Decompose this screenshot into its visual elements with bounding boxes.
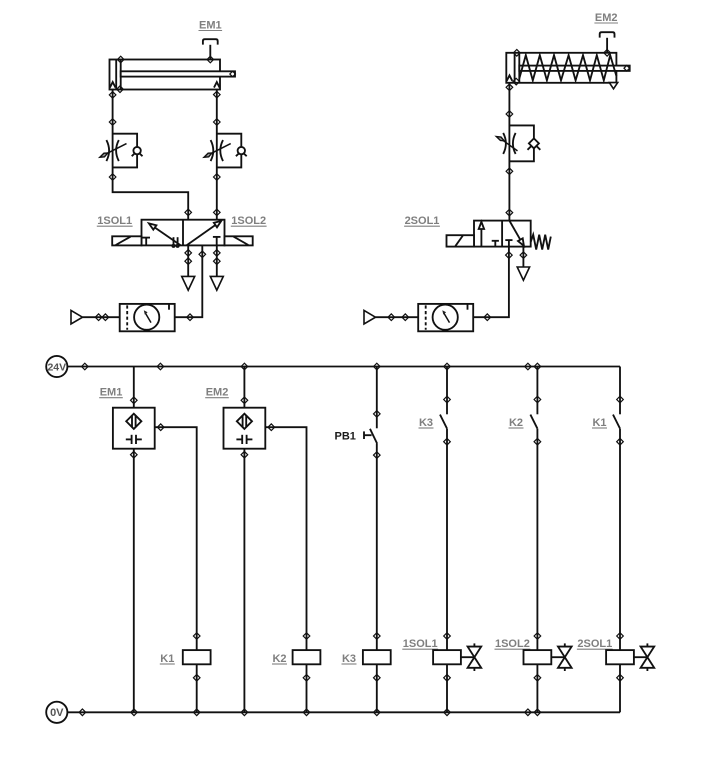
wire valve 2 exhaust bbox=[522, 247, 524, 267]
contact K1 (normally open) bbox=[613, 415, 620, 429]
port arrow right bbox=[214, 82, 220, 88]
wire source 1 to air unit bbox=[83, 316, 120, 318]
node bottom rail 1SOL1 junction bbox=[444, 709, 451, 716]
solenoid valve symbol 2SOL1 bbox=[641, 643, 655, 671]
node bottom rail 1SOL2 junction bbox=[534, 709, 541, 716]
wire 1SOL1 coil to valve symbol bbox=[461, 656, 475, 658]
svg-text:EM2: EM2 bbox=[595, 12, 618, 24]
node rod end EM1 bbox=[230, 71, 236, 77]
wire EM2 sensor to 0V bbox=[243, 449, 245, 713]
svg-text:2SOL1: 2SOL1 bbox=[577, 638, 612, 650]
node bottom rail K2 junction bbox=[303, 709, 310, 716]
svg-text:1SOL2: 1SOL2 bbox=[231, 215, 266, 227]
node PB1 bottom bbox=[374, 452, 381, 459]
node top rail EM2 junction bbox=[241, 363, 248, 370]
node K1 coil top bbox=[193, 633, 200, 640]
node K3 contact bottom bbox=[444, 438, 451, 445]
node source wire 1b bbox=[102, 314, 109, 321]
compressed air source 1 bbox=[71, 310, 83, 324]
wire K1 coil to 0V bbox=[196, 664, 198, 712]
wire K2 coil to 0V bbox=[306, 664, 308, 712]
wire valve 2 pressure port 1 bbox=[473, 247, 509, 318]
node bottom rail K1 junction bbox=[193, 709, 200, 716]
exhaust valve 2 port 3 bbox=[517, 267, 529, 280]
compressed air source 2 bbox=[364, 310, 376, 324]
node top rail PB1 junction bbox=[374, 363, 381, 370]
svg-text:K1: K1 bbox=[592, 417, 606, 429]
svg-text:K3: K3 bbox=[342, 653, 356, 665]
valve 1 left position internals bbox=[142, 223, 180, 247]
node below flow control 2 bbox=[214, 174, 221, 181]
node below right port bbox=[214, 91, 221, 98]
svg-text:0V: 0V bbox=[50, 707, 64, 719]
relay coil 2SOL1 bbox=[606, 650, 634, 664]
wire rail to K1 contact bbox=[619, 367, 621, 415]
svg-text:1SOL1: 1SOL1 bbox=[403, 638, 438, 650]
relay coil K2 bbox=[293, 650, 321, 664]
return spring valve 2 bbox=[531, 235, 551, 250]
node EM1 sensor bottom bbox=[131, 451, 138, 458]
node cylinder EM2 top bbox=[514, 50, 521, 57]
node sensor EM2 on cylinder bbox=[604, 50, 611, 57]
svg-text:K1: K1 bbox=[160, 653, 174, 665]
node 1SOL1 coil bottom bbox=[444, 675, 451, 682]
air service unit 2 bbox=[418, 304, 473, 331]
node EM1 sensor right bbox=[157, 424, 164, 431]
node exhaust 3 a bbox=[214, 250, 221, 257]
wire valve 1 exhaust 3 bbox=[216, 245, 218, 276]
wire 1SOL2 coil to valve symbol bbox=[551, 656, 565, 658]
flow control valve V3 bbox=[496, 125, 540, 161]
svg-text:K3: K3 bbox=[419, 417, 433, 429]
node K3 coil top bbox=[374, 633, 381, 640]
node above flow control 1 bbox=[109, 119, 116, 126]
sensor bracket EM1 bbox=[203, 39, 218, 44]
wire bottom rail 0V bbox=[67, 711, 620, 713]
node bottom rail a bbox=[79, 709, 86, 716]
wire rail to K3 contact bbox=[446, 367, 448, 415]
solenoid 1SOL2 box bbox=[225, 236, 253, 245]
node 1SOL2 coil bottom bbox=[534, 675, 541, 682]
wire EM2 sensor out to K2 coil bbox=[265, 427, 306, 650]
solenoid 2SOL1 box bbox=[447, 235, 475, 246]
proximity sensor EM1 bbox=[113, 408, 155, 449]
node pressure below valve 1 bbox=[199, 251, 206, 258]
node air unit 2 outlet bbox=[484, 314, 491, 321]
3/2-way valve body bbox=[474, 221, 531, 247]
proximity sensor EM2 bbox=[224, 408, 266, 449]
node 2SOL1 coil bottom bbox=[617, 675, 624, 682]
wire cylinder EM2 port to valve 2 bbox=[508, 83, 510, 221]
node PB1 top bbox=[374, 411, 381, 418]
node EM2 sensor right bbox=[268, 424, 275, 431]
node EM2 sensor bottom bbox=[241, 451, 248, 458]
node K2 coil bottom bbox=[303, 675, 310, 682]
node K1 contact bottom bbox=[617, 438, 624, 445]
node K2 contact bottom bbox=[534, 438, 541, 445]
breather triangle EM2 bbox=[609, 83, 617, 89]
port arrow left bbox=[110, 82, 116, 88]
wire 2SOL1 coil to 0V bbox=[619, 664, 621, 712]
solenoid valve symbol 1SOL1 bbox=[468, 643, 482, 671]
node exhaust 5 a bbox=[185, 250, 192, 257]
svg-text:24V: 24V bbox=[47, 361, 66, 373]
node valve 2 port 2 bbox=[506, 209, 513, 216]
air service unit 1 bbox=[120, 304, 175, 331]
node below EM2 port bbox=[506, 84, 513, 91]
node bottom rail K3 junction bbox=[374, 709, 381, 716]
node top rail b bbox=[157, 363, 164, 370]
node EM2 sensor top bbox=[241, 397, 248, 404]
svg-text:EM2: EM2 bbox=[206, 387, 229, 399]
spring inside cylinder EM2 bbox=[519, 55, 616, 80]
node exhaust valve 2 bbox=[520, 252, 527, 259]
solenoid valve symbol 1SOL2 bbox=[558, 643, 572, 671]
sensor bracket EM2 bbox=[600, 32, 615, 37]
node exhaust 5 b bbox=[185, 258, 192, 265]
valve 2 right position internals bbox=[505, 221, 524, 247]
node air unit 1 outlet bbox=[187, 314, 194, 321]
wire 1SOL2 coil to 0V bbox=[536, 664, 538, 712]
contact K2 (normally open) bbox=[530, 415, 537, 429]
node K1 contact top bbox=[617, 396, 624, 403]
node K2 coil top bbox=[303, 633, 310, 640]
svg-text:K2: K2 bbox=[272, 653, 286, 665]
5/2-way valve body bbox=[142, 220, 225, 246]
node cylinder EM2 bottom edge bbox=[513, 78, 520, 85]
wire source 2 to air unit bbox=[376, 316, 419, 318]
wire cylinder left port to valve port 4 bbox=[113, 90, 189, 220]
node 1SOL2 coil top bbox=[534, 633, 541, 640]
push button PB1 actuator bbox=[364, 431, 372, 439]
wire EM2 sensor stem bbox=[606, 38, 608, 53]
node sensor EM1 on cylinder bbox=[207, 56, 214, 63]
node K1 coil bottom bbox=[193, 675, 200, 682]
wire EM1 sensor out to K1 coil bbox=[155, 427, 197, 650]
node K2 contact top bbox=[534, 396, 541, 403]
node valve 1 port 4 bbox=[185, 209, 192, 216]
exhaust valve 1 port 5 bbox=[182, 276, 195, 290]
node pressure below valve 2 bbox=[506, 252, 513, 259]
wire top rail 24V bbox=[67, 366, 620, 368]
node exhaust 3 b bbox=[214, 258, 221, 265]
svg-text:2SOL1: 2SOL1 bbox=[405, 215, 440, 227]
valve 2 left position internals bbox=[479, 222, 499, 247]
valve 1 right position internals bbox=[187, 221, 222, 246]
node valve 1 port 2 bbox=[214, 209, 221, 216]
node source wire 2b bbox=[402, 314, 409, 321]
svg-text:1SOL1: 1SOL1 bbox=[97, 215, 132, 227]
node top rail c bbox=[525, 363, 532, 370]
node below left port bbox=[109, 92, 116, 99]
port arrow EM2 bbox=[507, 75, 513, 81]
node bottom rail EM1 junction bbox=[131, 709, 138, 716]
flow control valve V2 bbox=[204, 134, 247, 168]
0V supply terminal bbox=[46, 702, 67, 723]
relay coil 1SOL1 bbox=[433, 650, 461, 664]
wire valve 1 pressure port 1 bbox=[175, 245, 203, 317]
node rod end EM2 bbox=[624, 65, 630, 71]
exhaust valve 1 port 3 bbox=[210, 276, 223, 290]
wire EM1 sensor stem bbox=[209, 45, 211, 60]
wire rail to K2 contact bbox=[536, 367, 538, 415]
node top rail K3 junction bbox=[444, 363, 451, 370]
node 2SOL1 coil top bbox=[617, 633, 624, 640]
node EM1 sensor top bbox=[131, 397, 138, 404]
svg-text:K2: K2 bbox=[509, 417, 523, 429]
cylinder EM2 (single-acting, spring return) bbox=[506, 53, 629, 83]
node top rail K2 junction bbox=[534, 363, 541, 370]
svg-text:EM1: EM1 bbox=[100, 387, 123, 399]
node K3 coil bottom bbox=[374, 675, 381, 682]
node above flow control 3 bbox=[506, 111, 513, 118]
node K3 contact top bbox=[444, 396, 451, 403]
wire rail to PB1 bbox=[376, 367, 378, 429]
relay coil 1SOL2 bbox=[524, 650, 552, 664]
wire cylinder right port to valve port 2 bbox=[216, 90, 218, 220]
svg-text:PB1: PB1 bbox=[335, 431, 356, 443]
wire K1 contact to 2SOL1 bbox=[619, 429, 621, 650]
relay coil K1 bbox=[183, 650, 211, 664]
wire K3 contact to 1SOL1 bbox=[446, 429, 448, 650]
wire valve 1 exhaust 5 bbox=[187, 245, 189, 276]
node 1SOL1 coil top bbox=[444, 633, 451, 640]
wire EM1 sensor to 0V bbox=[133, 449, 135, 713]
node above flow control 2 bbox=[214, 119, 221, 126]
wire 2SOL1 coil to valve symbol bbox=[634, 656, 648, 658]
node cylinder EM1 bottom edge bbox=[117, 86, 124, 93]
wire rail to EM1 sensor bbox=[133, 367, 135, 408]
node cylinder EM1 top bbox=[117, 56, 124, 63]
solenoid 1SOL1 box bbox=[112, 236, 141, 245]
wire 1SOL1 coil to 0V bbox=[446, 664, 448, 712]
node bottom rail EM2 junction bbox=[241, 709, 248, 716]
flow control valve V1 bbox=[100, 134, 143, 168]
contact K3 (normally open) bbox=[440, 415, 447, 429]
node source wire 1a bbox=[95, 314, 102, 321]
node source wire 2a bbox=[388, 314, 395, 321]
node below flow control 1 bbox=[109, 174, 116, 181]
wire rail to EM2 sensor bbox=[243, 367, 245, 408]
svg-text:1SOL2: 1SOL2 bbox=[495, 638, 530, 650]
relay coil K3 bbox=[363, 650, 391, 664]
wire K3 coil to 0V bbox=[376, 664, 378, 712]
push button PB1 blade bbox=[370, 429, 377, 444]
24V supply terminal bbox=[46, 356, 67, 377]
node below flow control 3 bbox=[506, 168, 513, 175]
svg-text:EM1: EM1 bbox=[199, 19, 222, 31]
cylinder EM1 (double-acting) bbox=[110, 60, 236, 90]
node bottom rail b bbox=[525, 709, 532, 716]
wire PB1 to K3 coil bbox=[376, 444, 378, 651]
wire K2 contact to 1SOL2 bbox=[536, 429, 538, 650]
node top rail a bbox=[82, 363, 89, 370]
